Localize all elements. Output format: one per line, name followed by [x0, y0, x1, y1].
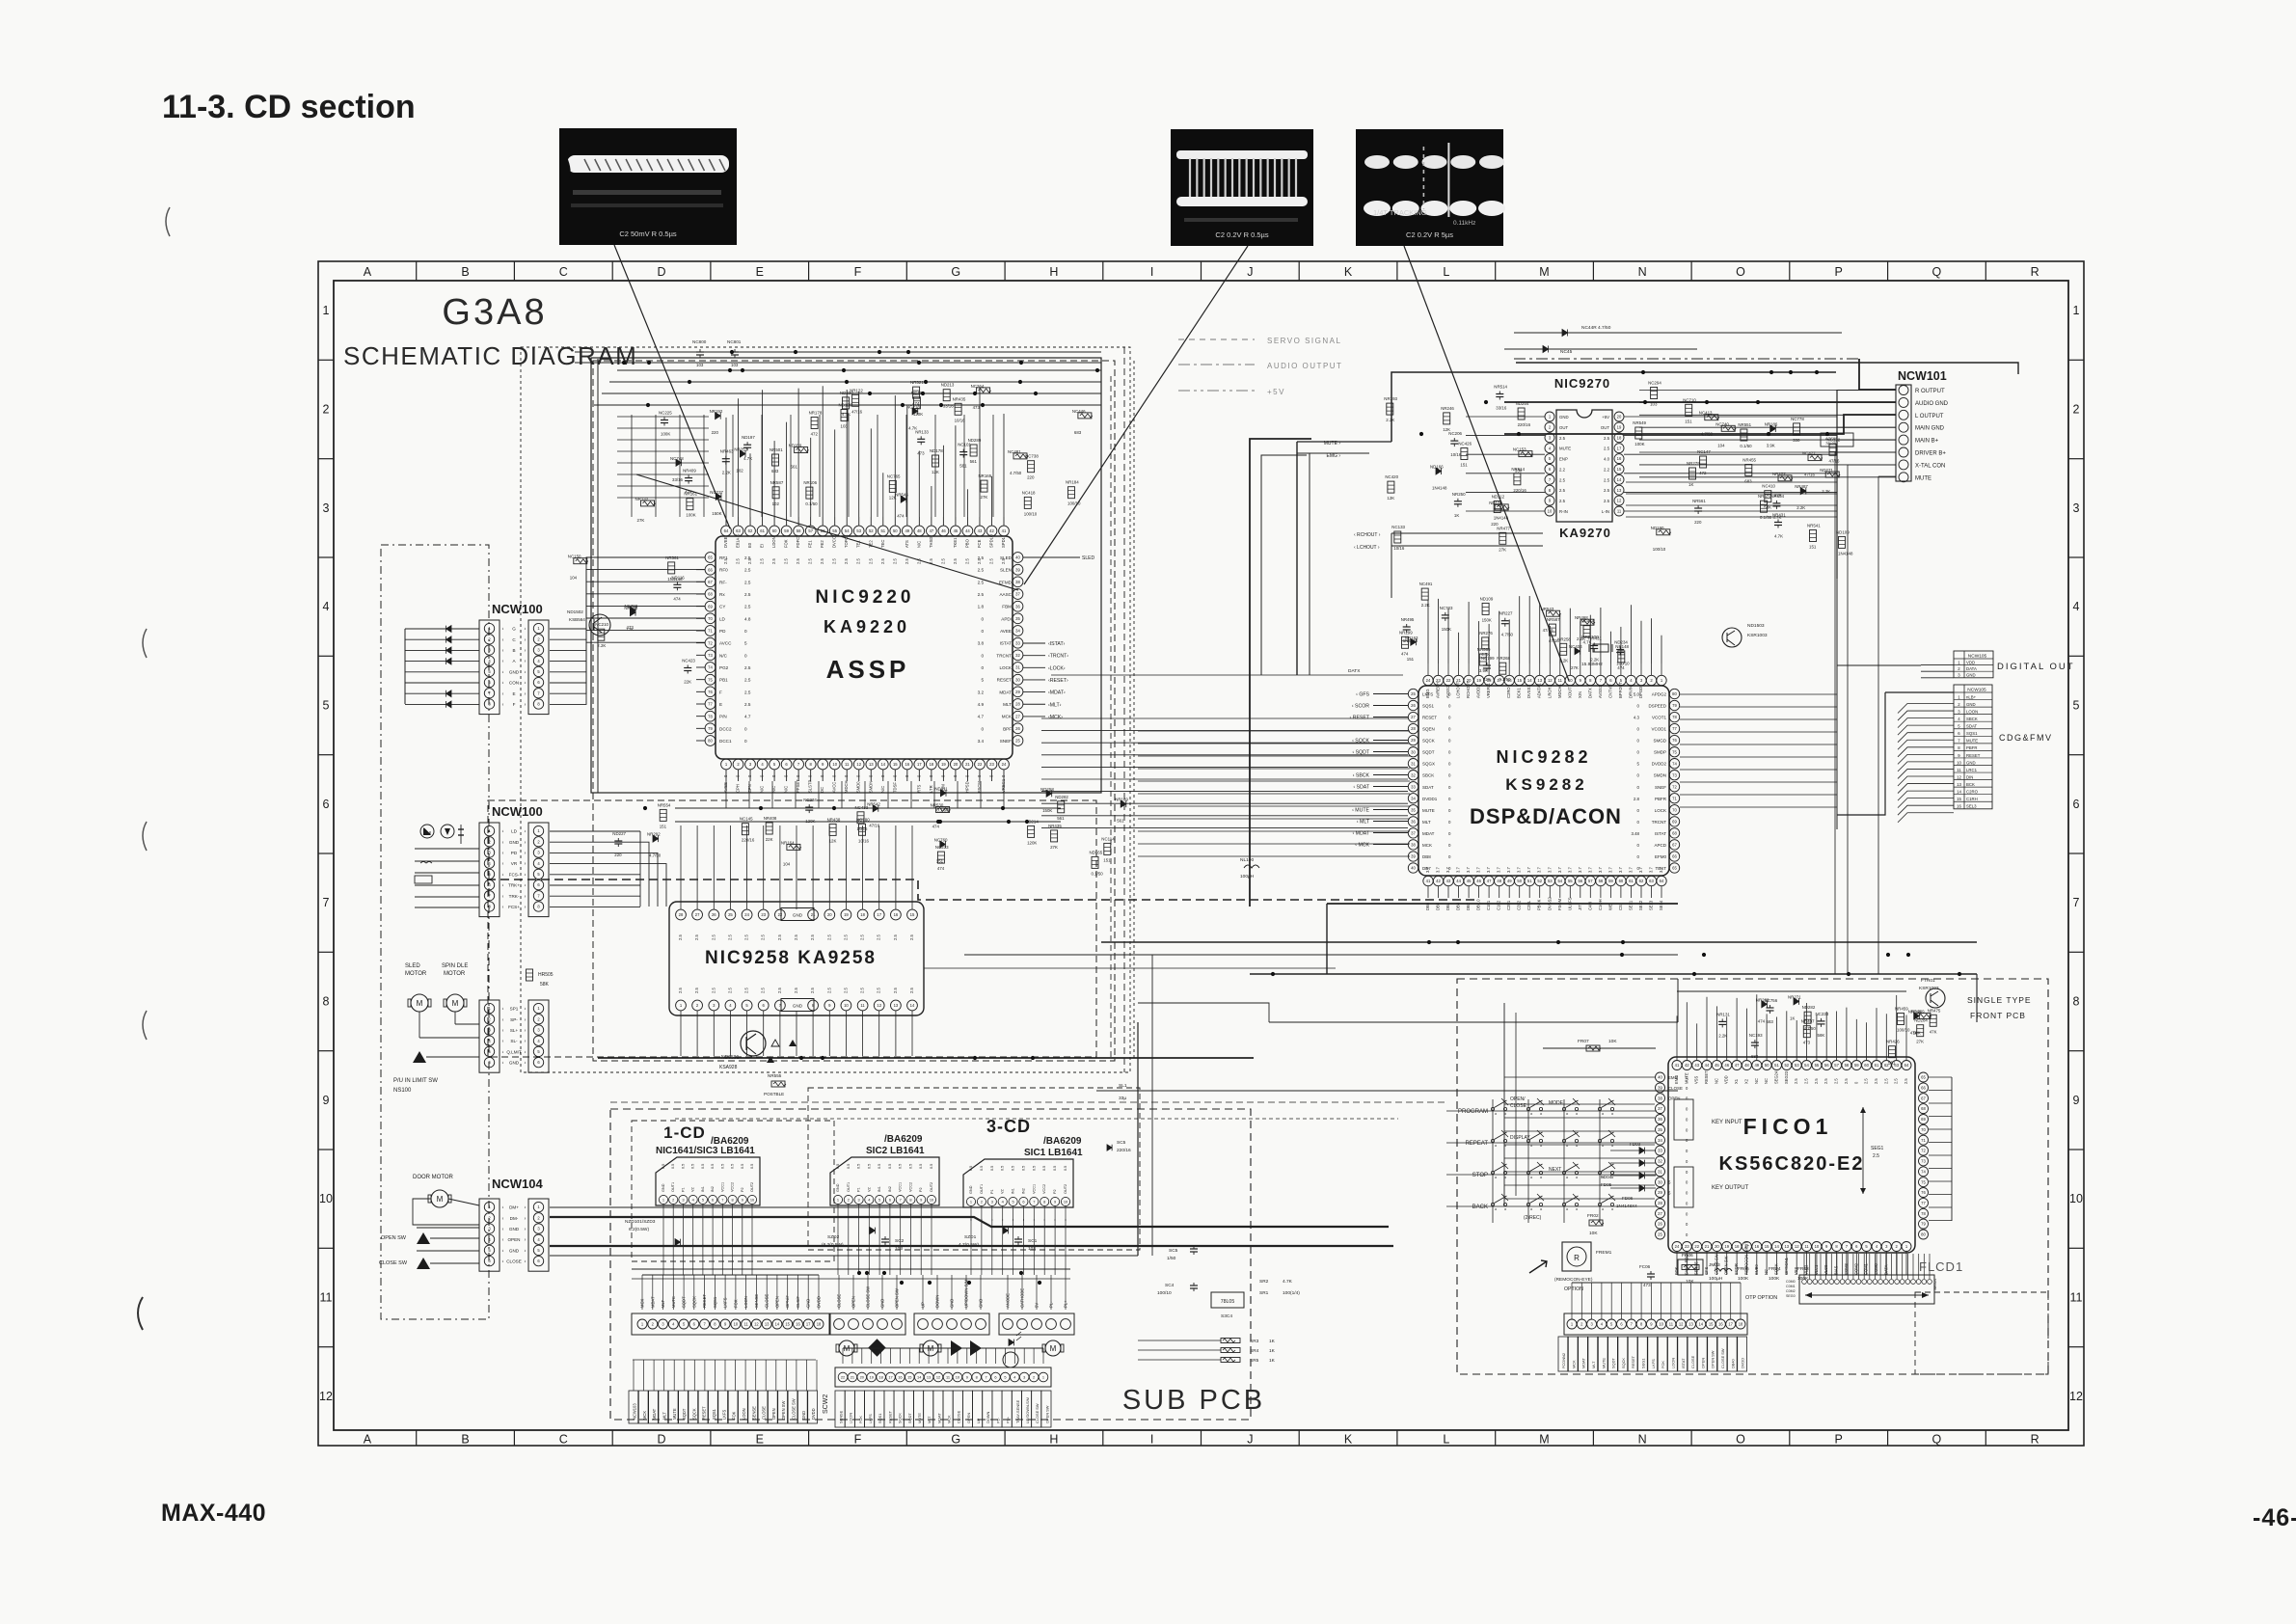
svg-text:12: 12 [877, 1003, 881, 1008]
svg-text:OPEN SW: OPEN SW [781, 1401, 786, 1420]
svg-text:2.5: 2.5 [777, 988, 782, 993]
svg-text:8: 8 [1835, 1244, 1838, 1249]
svg-text:73: 73 [1921, 1159, 1926, 1164]
svg-text:RTS: RTS [916, 784, 921, 793]
svg-text:FOK: FOK [733, 1299, 738, 1308]
svg-text:2.5: 2.5 [711, 988, 716, 993]
svg-text:LRCH1: LRCH1 [1547, 685, 1552, 698]
svg-text:CLOSE SW: CLOSE SW [1035, 1403, 1040, 1423]
svg-text:19: 19 [1617, 425, 1622, 430]
svg-text:LOON: LOON [742, 1408, 746, 1420]
svg-text:5: 5 [1610, 1322, 1613, 1327]
svg-text:150K: 150K [1442, 627, 1451, 632]
svg-text:›: › [525, 883, 527, 889]
svg-text:VCC1: VCC1 [899, 1182, 903, 1192]
svg-text:G3A8: G3A8 [442, 292, 547, 333]
svg-text:C: C [512, 637, 516, 642]
svg-text:9: 9 [724, 1322, 727, 1327]
svg-text:4.7K: 4.7K [908, 425, 917, 430]
svg-text:45: 45 [1715, 1063, 1719, 1068]
svg-text:‹: ‹ [502, 1205, 504, 1211]
svg-text:KEY OUTPUT: KEY OUTPUT [1712, 1185, 1749, 1191]
svg-text:0: 0 [1448, 750, 1451, 755]
svg-text:2.5: 2.5 [810, 934, 815, 940]
svg-text:EI: EI [760, 544, 765, 548]
svg-text:0: 0 [856, 774, 861, 777]
svg-text:SIC1 LB1641: SIC1 LB1641 [1024, 1148, 1083, 1158]
svg-text:NC410: NC410 [1762, 484, 1775, 489]
svg-text:48: 48 [1497, 879, 1501, 883]
svg-text:68: 68 [1672, 831, 1677, 836]
svg-text:REPEAT: REPEAT [1465, 1141, 1488, 1147]
svg-text:2.5: 2.5 [794, 934, 798, 940]
svg-text:SQS1: SQS1 [1422, 704, 1435, 709]
svg-text:DIN: DIN [1966, 774, 1973, 779]
svg-text:220/16: 220/16 [742, 838, 755, 843]
svg-text:SP1: SP1 [510, 1007, 519, 1012]
svg-text:0: 0 [844, 774, 849, 777]
svg-text:100/10: 100/10 [1616, 662, 1630, 666]
svg-text:3.7: 3.7 [1578, 867, 1582, 873]
svg-text:66: 66 [708, 567, 713, 572]
svg-text:A: A [364, 1433, 372, 1447]
svg-text:49: 49 [1507, 879, 1512, 883]
svg-text:GND: GND [801, 1411, 806, 1420]
svg-text:6: 6 [1549, 467, 1552, 472]
svg-text:VCC1: VCC1 [720, 1182, 724, 1192]
svg-text:47K: 47K [685, 490, 692, 495]
svg-text:9: 9 [1054, 1200, 1056, 1204]
svg-text:P: P [1835, 265, 1843, 279]
svg-text:100µH: 100µH [1709, 1276, 1723, 1282]
svg-text:3.7: 3.7 [1638, 867, 1643, 873]
svg-text:11: 11 [1669, 1322, 1674, 1327]
svg-text:14: 14 [917, 1375, 922, 1380]
svg-text:OPEN: OPEN [774, 1296, 779, 1308]
svg-text:MCK: MCK [1571, 1360, 1576, 1368]
svg-text:2.5: 2.5 [1844, 1078, 1849, 1084]
svg-text:0.5: 0.5 [731, 1164, 735, 1169]
svg-text:6: 6 [537, 680, 540, 685]
capacitor SC5 220/16 [1107, 1145, 1112, 1150]
svg-text:27K: 27K [1571, 665, 1579, 670]
svg-text:220: 220 [1694, 520, 1702, 525]
svg-text:SMDP: SMDP [1654, 750, 1666, 755]
svg-text:2.5: 2.5 [929, 558, 933, 564]
svg-text:17: 17 [1617, 446, 1622, 450]
svg-text:M: M [452, 999, 459, 1008]
remocon eye sensor [138, 207, 2296, 1531]
svg-text:o: o [1495, 1206, 1498, 1211]
svg-text:0.5: 0.5 [919, 1164, 923, 1169]
svg-text:62: 62 [748, 528, 753, 533]
svg-text:OPEN: OPEN [1700, 1358, 1705, 1368]
svg-text:4: 4 [1876, 1244, 1878, 1249]
svg-text:KEY INPUT: KEY INPUT [1712, 1120, 1742, 1125]
svg-text:NR169: NR169 [1115, 798, 1128, 802]
svg-text:4.7K: 4.7K [1772, 515, 1781, 520]
svg-text:ND258: ND258 [1040, 787, 1054, 792]
svg-text:4.7K: 4.7K [1774, 534, 1783, 539]
svg-text:AVEE: AVEE [723, 782, 728, 793]
svg-text:NR487: NR487 [1795, 484, 1808, 489]
svg-text:38: 38 [1015, 580, 1020, 584]
svg-text:/BA6209: /BA6209 [1043, 1136, 1082, 1147]
svg-text:63: 63 [1649, 879, 1654, 883]
servo section dashed box A [488, 800, 1096, 1057]
svg-text:24: 24 [1426, 678, 1431, 683]
svg-text:MDAT: MDAT [936, 1413, 941, 1423]
svg-text:12: 12 [1617, 499, 1622, 503]
svg-text:GND: GND [950, 1299, 955, 1308]
svg-text:›: › [525, 829, 527, 835]
resistor FR02 10K [1589, 1220, 1603, 1226]
svg-text:VCOT1: VCOT1 [1652, 716, 1667, 720]
svg-text:474: 474 [932, 825, 940, 829]
svg-text:SQS1: SQS1 [712, 1408, 716, 1420]
svg-text:SQDT: SQDT [907, 1413, 912, 1423]
svg-text:FREM1: FREM1 [1596, 1250, 1612, 1256]
svg-text:55: 55 [832, 528, 837, 533]
svg-text:22K: 22K [766, 837, 773, 842]
svg-text:3: 3 [537, 1227, 540, 1232]
svg-text:472: 472 [811, 432, 819, 437]
transistor ND1503 KSR1003 [1722, 628, 1742, 647]
svg-text:2.5: 2.5 [1604, 477, 1610, 482]
svg-text:3.7: 3.7 [1476, 867, 1481, 873]
svg-text:OUT: OUT [1601, 425, 1609, 430]
svg-text:CLOSE: CLOSE [1668, 1086, 1683, 1091]
svg-text:0: 0 [832, 774, 837, 777]
svg-text:2.5: 2.5 [892, 558, 897, 564]
svg-text:2.5: 2.5 [826, 988, 831, 993]
svg-text:60: 60 [772, 528, 777, 533]
svg-text:-46-: -46- [2253, 1504, 2296, 1531]
svg-text:DOOR MOTOR: DOOR MOTOR [413, 1175, 454, 1180]
svg-text:79: 79 [1921, 1222, 1926, 1227]
svg-text:4: 4 [537, 1237, 540, 1242]
svg-text:OPTION: OPTION [1564, 1286, 1583, 1292]
svg-text:11: 11 [1957, 768, 1961, 772]
svg-text:R: R [2031, 1433, 2039, 1447]
svg-text:1: 1 [537, 828, 540, 833]
front pcb dashed enclosure [1457, 979, 2048, 1374]
svg-text:4: 4 [1601, 1322, 1604, 1327]
svg-text:C2RO: C2RO [1506, 687, 1511, 698]
svg-text:2: 2 [1958, 666, 1960, 671]
svg-text:MDCH1: MDCH1 [1557, 683, 1562, 698]
svg-text:SLEN: SLEN [1000, 568, 1012, 573]
svg-text:9: 9 [966, 1375, 968, 1380]
svg-text:2.5: 2.5 [1814, 1078, 1819, 1084]
svg-text:45: 45 [1467, 879, 1472, 883]
svg-text:‹ GFS: ‹ GFS [1356, 692, 1369, 698]
ASSP right pin stub labels [1023, 642, 1045, 644]
svg-text:8: 8 [976, 1375, 978, 1380]
svg-text:10: 10 [319, 1192, 333, 1205]
svg-text:NR299: NR299 [1399, 630, 1413, 635]
svg-text:MCK: MCK [1002, 715, 1013, 719]
svg-text:NR554: NR554 [658, 802, 671, 807]
svg-text:SENSE: SENSE [754, 1294, 759, 1308]
svg-text:14: 14 [1957, 790, 1961, 795]
motor connector NS100 [479, 1000, 549, 1072]
svg-text:GND: GND [793, 1004, 803, 1009]
svg-text:34: 34 [1658, 1138, 1662, 1143]
svg-text:2.5: 2.5 [988, 558, 993, 564]
svg-text:7: 7 [986, 1375, 987, 1380]
svg-text:0: 0 [1637, 820, 1640, 825]
svg-text:NR186: NR186 [1765, 422, 1778, 427]
svg-text:DSP&D/ACON: DSP&D/ACON [1470, 804, 1622, 828]
svg-text:1: 1 [837, 1198, 839, 1203]
svg-text:M: M [417, 999, 423, 1008]
svg-text:LTR: LTR [929, 785, 933, 793]
component cluster above ASSP (NR/NC parts) [635, 380, 1093, 523]
svg-text:C: C [559, 265, 568, 279]
svg-text:21: 21 [851, 1375, 854, 1380]
svg-text:3: 3 [858, 1198, 860, 1203]
capacitor SC2 103 [884, 1236, 886, 1239]
svg-text:2.2K: 2.2K [1796, 505, 1805, 510]
svg-text:100/10: 100/10 [1897, 1028, 1910, 1033]
svg-text:MUTE: MUTE [1422, 808, 1435, 813]
svg-text:0: 0 [964, 774, 969, 777]
svg-text:P/N: P/N [719, 715, 727, 719]
svg-text:2.5: 2.5 [711, 934, 716, 940]
svg-text:R: R [2031, 265, 2039, 279]
svg-text:‹ SBCK: ‹ SBCK [1353, 773, 1370, 779]
svg-text:0: 0 [1448, 843, 1451, 848]
svg-text:NC778: NC778 [1791, 417, 1804, 421]
svg-text:A: A [364, 265, 372, 279]
svg-text:74: 74 [708, 665, 713, 670]
svg-text:1N4148: 1N4148 [1494, 516, 1509, 521]
svg-text:MDAT: MDAT [1581, 1358, 1586, 1368]
svg-text:0: 0 [1686, 1117, 1688, 1122]
svg-text:474: 474 [897, 514, 905, 519]
svg-text:0: 0 [1001, 774, 1006, 777]
resistor NR555 [771, 1081, 785, 1087]
svg-text:4: 4 [729, 1003, 732, 1008]
svg-text:NR543: NR543 [1541, 607, 1554, 611]
svg-text:0: 0 [981, 616, 984, 621]
svg-text:25: 25 [1015, 739, 1020, 744]
svg-text:13: 13 [1537, 678, 1542, 683]
svg-text:13: 13 [894, 1003, 899, 1008]
svg-text:15: 15 [785, 1322, 790, 1327]
svg-text:0: 0 [1448, 854, 1451, 859]
svg-text:o: o [1576, 1175, 1579, 1179]
svg-text:10: 10 [1815, 1244, 1820, 1249]
svg-text:FD06: FD06 [1622, 1196, 1634, 1201]
svg-text:RESET: RESET [1422, 716, 1437, 720]
svg-text:NC225: NC225 [659, 411, 672, 416]
diode array at NCW100 upper [405, 628, 479, 630]
svg-text:3: 3 [323, 501, 330, 515]
svg-text:APDI: APDI [1001, 616, 1012, 621]
svg-text:30: 30 [1658, 1179, 1662, 1184]
svg-text:MUTE: MUTE [1915, 475, 1931, 481]
svg-text:o: o [1566, 1175, 1569, 1179]
svg-text:2.2K: 2.2K [1421, 603, 1430, 608]
svg-text:6: 6 [1022, 1200, 1024, 1204]
svg-text:‹ MLT: ‹ MLT [1357, 820, 1370, 826]
svg-text:9: 9 [1650, 1322, 1653, 1327]
svg-text:LD: LD [511, 829, 518, 834]
svg-text:0: 0 [1637, 750, 1640, 755]
svg-text:50: 50 [1517, 879, 1522, 883]
svg-text:2.5: 2.5 [820, 558, 824, 564]
svg-text:42: 42 [989, 528, 994, 533]
svg-text:M: M [437, 1195, 444, 1204]
svg-text:7: 7 [1958, 739, 1960, 744]
svg-text:NC801: NC801 [727, 339, 742, 344]
svg-text:›: › [525, 1039, 527, 1044]
svg-text:561: 561 [1117, 819, 1124, 824]
svg-text:‹: ‹ [502, 1007, 504, 1013]
svg-text:D: D [657, 265, 665, 279]
svg-text:0: 0 [1637, 773, 1640, 778]
svg-text:CLOSE: CLOSE [765, 1294, 770, 1308]
svg-text:2.5: 2.5 [744, 988, 749, 993]
svg-text:2.5: 2.5 [777, 934, 782, 940]
svg-text:ND109: ND109 [1480, 596, 1494, 601]
svg-text:7: 7 [1033, 1200, 1035, 1204]
connector SCW2 [823, 1348, 1051, 1427]
svg-text:NC418: NC418 [1022, 490, 1036, 495]
svg-text:683: 683 [1744, 479, 1752, 484]
svg-text:HR505: HR505 [538, 972, 554, 978]
thick audio rail left of NIC9270 [1250, 439, 1311, 907]
svg-text:SIC2 LB1641: SIC2 LB1641 [866, 1146, 925, 1156]
svg-text:561: 561 [970, 459, 978, 464]
svg-text:4.7K: 4.7K [1283, 1279, 1293, 1285]
svg-text:K: K [1344, 1433, 1353, 1447]
svg-text:›: › [525, 851, 527, 856]
svg-text:DVDD2: DVDD2 [1652, 762, 1667, 767]
front pcb option dashed box [1915, 1292, 2048, 1374]
svg-text:80: 80 [708, 739, 713, 744]
svg-text:2.5: 2.5 [860, 934, 865, 940]
svg-text:1: 1 [1661, 678, 1663, 683]
svg-text:43: 43 [1446, 879, 1451, 883]
svg-text:RF-: RF- [719, 580, 727, 584]
sub pcb inner dashed box [632, 1121, 834, 1261]
svg-text:AVREPH: AVREPH [1436, 682, 1441, 698]
svg-text:473: 473 [917, 450, 925, 455]
svg-text:o: o [1611, 1143, 1614, 1148]
svg-text:5: 5 [1958, 724, 1960, 729]
svg-text:5: 5 [773, 762, 776, 767]
svg-text:SCW2: SCW2 [823, 1394, 829, 1414]
svg-text:0: 0 [1686, 1232, 1688, 1237]
svg-text:CNTVD: CNTVD [1607, 685, 1612, 698]
svg-text:4.7/50: 4.7/50 [1804, 1026, 1817, 1031]
svg-text:MODE: MODE [1549, 1100, 1564, 1106]
svg-text:5: 5 [323, 699, 330, 713]
svg-text:5: 5 [537, 1248, 540, 1253]
svg-text:OUT1: OUT1 [980, 1184, 984, 1194]
svg-text:2.5: 2.5 [1794, 1078, 1798, 1084]
svg-text:10/16: 10/16 [1450, 452, 1462, 457]
svg-text:0: 0 [1637, 704, 1640, 709]
svg-text:NR258: NR258 [1557, 636, 1571, 641]
svg-text:11: 11 [860, 1003, 865, 1008]
svg-text:75: 75 [1672, 749, 1677, 754]
svg-text:7: 7 [537, 690, 540, 695]
svg-text:‹ LCHOUT ›: ‹ LCHOUT › [1354, 545, 1380, 551]
svg-text:‹: ‹ [502, 851, 504, 856]
svg-text:10: 10 [1548, 509, 1553, 514]
svg-text:77: 77 [1921, 1201, 1926, 1205]
resistor FR07 10K [1586, 1045, 1600, 1051]
svg-text:GND: GND [969, 1185, 973, 1194]
svg-text:SC1: SC1 [1028, 1238, 1038, 1244]
svg-text:NIC9270: NIC9270 [1554, 376, 1610, 391]
svg-text:2.5: 2.5 [893, 934, 898, 940]
svg-text:58K: 58K [1818, 1033, 1825, 1038]
svg-text:14: 14 [1527, 678, 1532, 683]
svg-text:11-3. CD section: 11-3. CD section [162, 89, 416, 125]
svg-text:0: 0 [1448, 785, 1451, 790]
svg-text:FR03: FR03 [1797, 1266, 1809, 1272]
svg-text:0: 0 [1448, 773, 1451, 778]
svg-text:MCK: MCK [1422, 843, 1432, 848]
svg-text:NC237: NC237 [710, 490, 723, 495]
svg-text:‹ MDAT: ‹ MDAT [1353, 831, 1370, 837]
svg-text:AASC: AASC [999, 592, 1012, 597]
svg-text:ND178: ND178 [930, 448, 943, 453]
svg-text:NCW100: NCW100 [492, 602, 543, 616]
svg-text:DVEE: DVEE [723, 536, 728, 548]
regulator AZC09 78L05 [1821, 433, 1853, 447]
svg-text:78L05: 78L05 [1825, 441, 1837, 446]
svg-text:1: 1 [1042, 1375, 1044, 1380]
svg-text:104: 104 [1717, 443, 1725, 447]
svg-text:NIC9258 KA9258: NIC9258 KA9258 [705, 948, 877, 968]
svg-text:29: 29 [1411, 738, 1416, 743]
svg-text:68: 68 [708, 592, 713, 597]
extra DSP left bundle [1138, 730, 1410, 732]
svg-text:3: 3 [1549, 435, 1552, 440]
svg-text:ND166: ND166 [1430, 465, 1444, 470]
svg-text:SBCK: SBCK [1422, 773, 1434, 778]
svg-text:KS9282: KS9282 [1505, 775, 1587, 794]
svg-text:2: 2 [1958, 702, 1960, 707]
svg-text:‹: ‹ [502, 883, 504, 889]
svg-text:NC193: NC193 [1749, 1033, 1763, 1038]
svg-text:2.5: 2.5 [940, 558, 945, 564]
svg-text:C2F1: C2F1 [1506, 900, 1511, 910]
svg-text:4.7: 4.7 [744, 715, 751, 719]
svg-text:2.5: 2.5 [1804, 1078, 1809, 1084]
svg-text:WE: WE [1607, 904, 1612, 910]
capacitor NC800 [699, 349, 701, 352]
svg-text:LOCK: LOCK [1655, 808, 1666, 813]
svg-text:‹: ‹ [502, 1216, 504, 1222]
transistor ND1502 [589, 614, 610, 636]
svg-text:55: 55 [1568, 879, 1573, 883]
svg-text:36: 36 [1015, 604, 1020, 609]
svg-text:104: 104 [570, 576, 578, 581]
svg-text:NC145: NC145 [740, 817, 753, 822]
svg-text:›: › [525, 1017, 527, 1023]
svg-text:44: 44 [1456, 879, 1461, 883]
svg-text:2: 2 [737, 762, 740, 767]
svg-text:OUT2: OUT2 [930, 1182, 933, 1192]
component cluster above FIC01 (FD/FC/FR parts) [1716, 994, 1941, 1065]
